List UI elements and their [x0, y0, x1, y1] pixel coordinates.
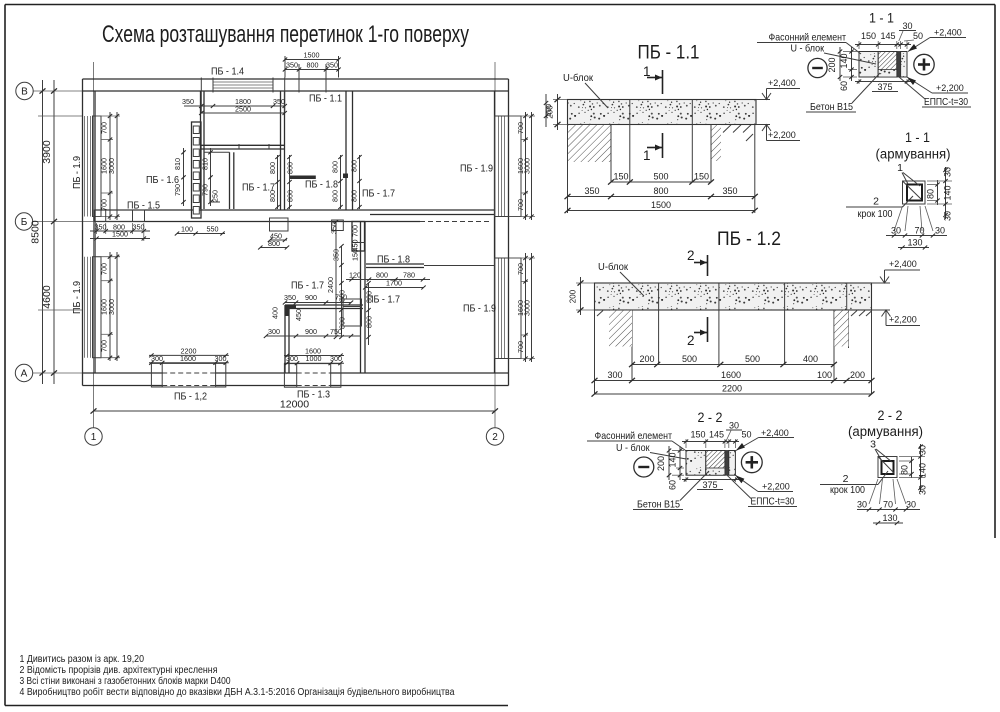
- plus circle: [914, 54, 934, 74]
- svg-text:350: 350: [330, 222, 339, 234]
- svg-text:200: 200: [546, 105, 555, 119]
- svg-text:+2,200: +2,200: [762, 482, 790, 492]
- svg-text:3 Всі стіни виконані з газобет: 3 Всі стіни виконані з газобетонних блок…: [20, 675, 231, 687]
- svg-text:+2,200: +2,200: [889, 315, 917, 325]
- section cut 1 bottom: [662, 133, 664, 158]
- svg-text:ПБ - 1.4: ПБ - 1.4: [211, 66, 244, 78]
- right wall stub hatched: [711, 125, 755, 183]
- right window 1 dims: [509, 112, 535, 220]
- svg-text:400: 400: [271, 307, 280, 319]
- svg-text:150: 150: [861, 31, 876, 41]
- top dim row: [685, 439, 687, 448]
- svg-text:ПБ - 1,2: ПБ - 1,2: [174, 391, 207, 403]
- svg-text:120: 120: [349, 271, 361, 280]
- svg-text:140: 140: [943, 185, 953, 200]
- interior wall V1: [280, 91, 282, 210]
- svg-text:700: 700: [100, 340, 109, 352]
- svg-text:800: 800: [653, 186, 668, 196]
- small room dims above H3: [285, 302, 351, 304]
- svg-text:800: 800: [331, 161, 340, 173]
- svg-text:700: 700: [100, 263, 109, 275]
- svg-text:200: 200: [850, 370, 865, 380]
- svg-text:ПБ - 1.7: ПБ - 1.7: [291, 280, 324, 292]
- svg-text:150: 150: [694, 172, 709, 182]
- left dim 200: [553, 99, 567, 101]
- left wall stub: [595, 310, 633, 394]
- svg-text:1000: 1000: [306, 354, 322, 363]
- right window 2 dims: [509, 253, 535, 362]
- svg-text:30: 30: [935, 226, 945, 236]
- right wall window 1 glazing: [498, 116, 500, 217]
- axis B2 circle: [15, 213, 32, 230]
- svg-text:130: 130: [907, 238, 922, 248]
- bottom dimension 12000: [94, 410, 496, 412]
- svg-text:1: 1: [643, 148, 651, 163]
- dims 450 800 opening near V1: [270, 239, 287, 241]
- svg-text:790: 790: [201, 184, 210, 196]
- PB-1.2 dims row1 200/500/500/400: [632, 364, 834, 366]
- svg-text:550: 550: [207, 225, 219, 234]
- svg-text:ЕППС-t=30: ЕППС-t=30: [751, 496, 795, 508]
- section cut 2 bottom: [707, 317, 709, 342]
- svg-text:800: 800: [350, 190, 359, 202]
- left wall: [82, 79, 84, 386]
- svg-text:2 - 2: 2 - 2: [698, 410, 723, 425]
- svg-text:810: 810: [173, 158, 182, 170]
- interior wall V2: [345, 91, 347, 210]
- svg-text:900: 900: [305, 293, 317, 302]
- left dimension line 8500: [42, 80, 44, 384]
- right dims 80 / 30 140 30: [927, 184, 938, 186]
- svg-text:800: 800: [365, 316, 374, 328]
- PB-1.2 dims 2200 / 300 1600 300: [149, 354, 229, 356]
- svg-text:Б: Б: [21, 217, 28, 228]
- svg-text:100: 100: [817, 370, 832, 380]
- svg-text:350: 350: [182, 97, 194, 106]
- PB-1.3 dims 1600 / 300 1000 300: [284, 355, 344, 357]
- svg-text:375: 375: [877, 82, 892, 92]
- bottom dims 30/70/30 130: [894, 206, 903, 231]
- svg-text:145: 145: [880, 31, 895, 41]
- svg-text:ПБ - 1.9: ПБ - 1.9: [463, 303, 496, 315]
- svg-text:350: 350: [273, 97, 285, 106]
- svg-text:ПБ - 1.1: ПБ - 1.1: [309, 93, 342, 105]
- left dimension line 3900/4600: [53, 80, 55, 384]
- wall stub PB-1.8 upper: [290, 176, 316, 180]
- right dims 80 / 30 140 30: [899, 460, 912, 462]
- svg-text:350: 350: [584, 186, 599, 196]
- svg-text:2 - 2: 2 - 2: [878, 408, 903, 423]
- svg-text:ЕППС-t=30: ЕППС-t=30: [924, 96, 968, 108]
- svg-text:200: 200: [639, 354, 654, 364]
- svg-text:2400: 2400: [326, 277, 335, 293]
- svg-text:450: 450: [294, 309, 303, 321]
- svg-text:Бетон В15: Бетон В15: [810, 101, 853, 113]
- svg-text:800: 800: [350, 160, 359, 172]
- row3 2200: [595, 393, 872, 395]
- ext lines left windows: [38, 115, 82, 117]
- svg-text:800: 800: [268, 239, 280, 248]
- svg-text:2500: 2500: [235, 105, 251, 114]
- thick corner at V5/H3: [285, 305, 296, 309]
- svg-text:700: 700: [516, 199, 525, 211]
- svg-text:350: 350: [133, 223, 145, 232]
- wall on axis Б: [95, 209, 495, 211]
- svg-text:Бетон В15: Бетон В15: [637, 499, 680, 511]
- svg-text:1500: 1500: [651, 200, 671, 210]
- svg-text:2 Відомість прорізів див. архі: 2 Відомість прорізів див. архітектурні к…: [20, 665, 218, 676]
- svg-text:1 Дивитись разом із арк. 19,20: 1 Дивитись разом із арк. 19,20: [20, 654, 145, 665]
- axis A circle: [15, 364, 32, 381]
- svg-text:70: 70: [914, 226, 924, 236]
- PB-1.5 lintel rect: [94, 210, 145, 222]
- svg-text:+2,400: +2,400: [889, 259, 917, 269]
- svg-text:200: 200: [656, 456, 666, 471]
- middle stub lines: [658, 310, 660, 365]
- svg-text:140: 140: [668, 452, 678, 467]
- left wall window 1 glazing: [85, 116, 505, 359]
- axis B2 line: [33, 221, 95, 223]
- svg-text:300: 300: [215, 354, 227, 363]
- wall jog piece at V2/V4 junction: [352, 222, 365, 252]
- svg-text:200: 200: [827, 57, 837, 72]
- svg-text:3000: 3000: [523, 158, 532, 174]
- plus circle: [741, 452, 762, 473]
- svg-text:750: 750: [335, 293, 347, 302]
- row2 300/1600/100/200: [595, 380, 872, 382]
- svg-text:800: 800: [268, 162, 277, 174]
- section cut 2 top: [707, 255, 709, 276]
- axis 2 circle: [486, 428, 503, 445]
- svg-text:800: 800: [286, 162, 295, 174]
- svg-text:150: 150: [690, 430, 705, 440]
- PB-1.4 dims (350/1800/350, 2500): [201, 105, 284, 107]
- svg-text:В: В: [21, 87, 28, 98]
- svg-text:30: 30: [943, 211, 953, 221]
- svg-text:300: 300: [151, 354, 163, 363]
- PB-1.1 concrete bar: [568, 100, 757, 125]
- rebar square: [878, 457, 897, 478]
- minus circle: [634, 457, 654, 477]
- left wall window 2 glazing: [84, 257, 86, 358]
- svg-text:1: 1: [91, 432, 97, 443]
- svg-text:350: 350: [326, 61, 338, 70]
- svg-text:400: 400: [803, 354, 818, 364]
- 375 dim below: [858, 79, 860, 84]
- PB-1.5 dims 350/800/350 1500: [90, 230, 150, 232]
- svg-text:200: 200: [569, 289, 578, 303]
- door openings in V1 V2 with 800 dims: [268, 155, 362, 209]
- svg-text:700: 700: [516, 263, 525, 275]
- svg-text:150: 150: [351, 249, 360, 261]
- bath door dashes in H1: [238, 144, 240, 150]
- dim 200 top right: [545, 94, 547, 127]
- top wall: [83, 78, 509, 80]
- svg-text:ПБ - 1.7: ПБ - 1.7: [362, 188, 395, 200]
- svg-text:30: 30: [906, 500, 916, 510]
- interior wall H4 (PB-1.8 lintel wall): [366, 263, 424, 265]
- left wall stub hatched: [568, 125, 612, 183]
- svg-text:крок 100: крок 100: [830, 484, 865, 496]
- axis B circle: [16, 82, 33, 99]
- H4 wall dims 120 800 780 1700: [346, 279, 430, 281]
- svg-text:790: 790: [173, 184, 182, 196]
- svg-text:30: 30: [918, 445, 928, 455]
- right wall window 2 glazing: [498, 258, 500, 359]
- svg-text:130: 130: [882, 513, 897, 523]
- svg-text:ПБ - 1.3: ПБ - 1.3: [297, 389, 330, 401]
- svg-text:ПБ - 1.8: ПБ - 1.8: [377, 254, 410, 266]
- svg-text:+2,200: +2,200: [936, 83, 964, 93]
- svg-text:60: 60: [839, 81, 849, 91]
- svg-text:700: 700: [516, 122, 525, 134]
- svg-text:150: 150: [613, 172, 628, 182]
- left dims 200 / 140 60: [843, 51, 857, 53]
- svg-text:ПБ - 1.9: ПБ - 1.9: [460, 163, 493, 175]
- axis B line: [33, 90, 83, 92]
- svg-text:100: 100: [181, 225, 193, 234]
- top dim row: [858, 41, 860, 49]
- interior wall H3: [285, 304, 363, 306]
- lintel rect PB-1.7 at V4 door: [343, 299, 362, 326]
- svg-text:375: 375: [702, 480, 717, 490]
- rebar square: [903, 181, 926, 204]
- lintel PB-1.3 rect: [284, 364, 341, 388]
- svg-text:3000: 3000: [107, 299, 116, 315]
- svg-text:700: 700: [516, 341, 525, 353]
- lintel rect left window 1: [93, 116, 102, 217]
- block cross-section: [686, 451, 706, 476]
- interior wall V4: [360, 222, 362, 374]
- svg-text:30: 30: [891, 226, 901, 236]
- sheet frame: [5, 4, 995, 6]
- lintel PB-1.2 rect: [151, 363, 225, 387]
- bottom wall: [83, 372, 509, 374]
- svg-text:крок 100: крок 100: [858, 208, 893, 220]
- svg-text:60: 60: [668, 480, 678, 490]
- svg-text:(армування): (армування): [876, 147, 951, 162]
- svg-text:350: 350: [95, 223, 107, 232]
- svg-text:1: 1: [897, 162, 903, 174]
- svg-text:Фасонний елемент: Фасонний елемент: [595, 430, 673, 442]
- lintel rect right window 1: [495, 116, 522, 217]
- svg-text:700: 700: [351, 225, 360, 237]
- svg-text:ПБ - 1.9: ПБ - 1.9: [71, 156, 83, 189]
- svg-text:2200: 2200: [722, 384, 742, 394]
- bath partition line: [204, 151, 230, 153]
- block cross-section: [859, 52, 878, 78]
- svg-text:2: 2: [492, 432, 498, 443]
- PB-1.1 bottom dims row1 150/500/150: [611, 181, 711, 183]
- svg-text:500: 500: [745, 354, 760, 364]
- svg-text:350: 350: [284, 293, 296, 302]
- section cut 1 top: [662, 70, 664, 94]
- lintel rect at Б opening near V1: [270, 218, 289, 231]
- svg-text:1 - 1: 1 - 1: [869, 11, 894, 26]
- interior wall V5: [284, 305, 286, 373]
- bar joints: [658, 283, 660, 310]
- svg-text:3: 3: [870, 439, 876, 451]
- svg-text:250: 250: [211, 190, 220, 202]
- left dims 200 / 140 60: [672, 450, 684, 452]
- door PB-1.1 in top wall: [298, 70, 300, 93]
- dims 100 550 below Б wall: [177, 233, 225, 235]
- svg-text:145: 145: [709, 430, 724, 440]
- left window 1 dims: [96, 112, 120, 220]
- svg-text:300: 300: [268, 327, 280, 336]
- svg-text:2: 2: [687, 333, 695, 348]
- svg-text:U - блок: U - блок: [616, 442, 650, 454]
- small room inner dims: [266, 335, 361, 337]
- svg-text:70: 70: [883, 500, 893, 510]
- bar joints: [629, 100, 631, 125]
- svg-text:800: 800: [365, 291, 374, 303]
- svg-text:ПБ - 1.8: ПБ - 1.8: [305, 179, 338, 191]
- svg-text:80: 80: [900, 465, 910, 475]
- svg-text:1600: 1600: [180, 354, 196, 363]
- axis 1 vertical line: [93, 62, 95, 428]
- svg-text:700: 700: [100, 122, 109, 134]
- svg-text:3000: 3000: [107, 158, 116, 174]
- svg-text:ПБ - 1.9: ПБ - 1.9: [71, 281, 83, 314]
- axis 2 vertical line: [494, 62, 496, 428]
- svg-text:8500: 8500: [30, 220, 42, 244]
- svg-text:U-блок: U-блок: [563, 72, 593, 84]
- svg-text:+2,400: +2,400: [768, 78, 796, 88]
- svg-text:30: 30: [902, 21, 912, 31]
- svg-text:(армування): (армування): [848, 424, 923, 439]
- cluster at Б/V4 junction dims: [326, 220, 374, 345]
- left dim 200: [576, 282, 594, 284]
- svg-text:1500: 1500: [112, 230, 128, 239]
- svg-text:+2,200: +2,200: [768, 130, 796, 140]
- svg-text:1500: 1500: [304, 51, 320, 60]
- svg-text:140: 140: [918, 463, 928, 478]
- svg-text:30: 30: [918, 485, 928, 495]
- svg-text:500: 500: [682, 354, 697, 364]
- svg-text:800: 800: [331, 190, 340, 202]
- svg-text:1600: 1600: [721, 370, 741, 380]
- axis 1 circle: [85, 428, 102, 445]
- PB-1.1 dims 1500 / 350 800 350: [285, 59, 339, 61]
- svg-text:800: 800: [286, 190, 295, 202]
- svg-text:140: 140: [839, 53, 849, 68]
- svg-text:3000: 3000: [523, 300, 532, 316]
- svg-text:U-блок: U-блок: [598, 261, 628, 273]
- 350 dim top middle: [184, 105, 201, 107]
- svg-text:+2,400: +2,400: [761, 428, 789, 438]
- dashed wall edges across openings: [162, 372, 215, 374]
- svg-text:80: 80: [926, 189, 936, 199]
- svg-text:900: 900: [305, 327, 317, 336]
- svg-text:4 Виробництво робіт вести відп: 4 Виробництво робіт вести відповідно до …: [20, 686, 455, 698]
- ventilation shaft column: [192, 122, 202, 218]
- svg-text:810: 810: [201, 158, 210, 170]
- svg-text:800: 800: [268, 190, 277, 202]
- left window 2 dims: [96, 252, 120, 361]
- svg-text:800: 800: [307, 61, 319, 70]
- svg-text:50: 50: [913, 31, 923, 41]
- svg-text:U - блок: U - блок: [791, 43, 825, 55]
- svg-text:ПБ - 1.1: ПБ - 1.1: [638, 43, 700, 64]
- svg-text:300: 300: [286, 354, 298, 363]
- row3 1500: [568, 210, 755, 212]
- svg-text:300: 300: [330, 354, 342, 363]
- svg-text:ПБ - 1.2: ПБ - 1.2: [717, 229, 781, 250]
- svg-text:1: 1: [643, 64, 651, 79]
- interior wall H1 bath top: [202, 144, 285, 146]
- svg-text:500: 500: [653, 172, 668, 182]
- svg-text:30: 30: [857, 500, 867, 510]
- svg-text:700: 700: [100, 199, 109, 211]
- minus circle: [808, 58, 827, 77]
- bottom dims 30/70/30 130: [869, 479, 878, 504]
- row2 350/800/350: [568, 196, 755, 198]
- concrete fill inside hatch bottom: [878, 70, 897, 78]
- svg-text:750: 750: [330, 327, 342, 336]
- svg-text:350: 350: [286, 61, 298, 70]
- svg-text:2: 2: [873, 196, 879, 208]
- right wall: [508, 79, 510, 386]
- svg-text:2: 2: [687, 248, 695, 263]
- window PB-1.4 glazing: [213, 82, 273, 88]
- right wall stub: [834, 310, 872, 394]
- PB-1.2 concrete bar: [595, 283, 872, 310]
- svg-text:50: 50: [741, 430, 751, 440]
- PB-1.6 dim cluster: [173, 148, 213, 206]
- svg-text:350: 350: [722, 186, 737, 196]
- bath partition wall vertical: [229, 152, 231, 209]
- svg-text:30: 30: [943, 167, 953, 177]
- axis A line: [33, 372, 83, 374]
- svg-text:Схема розташування перетинок 1: Схема розташування перетинок 1-го поверх…: [102, 21, 469, 48]
- svg-text:+2,400: +2,400: [934, 28, 962, 38]
- svg-text:1 - 1: 1 - 1: [905, 130, 930, 145]
- lintel rect right window 2: [495, 258, 522, 359]
- svg-text:300: 300: [607, 370, 622, 380]
- 375 dim: [685, 477, 687, 482]
- opening white-outs on bottom wall: [163, 372, 215, 387]
- svg-text:А: А: [21, 369, 28, 380]
- interior wall V3: [200, 91, 202, 209]
- svg-text:30: 30: [729, 421, 739, 431]
- middle stub edges: [629, 125, 631, 183]
- svg-text:780: 780: [403, 271, 415, 280]
- svg-text:1700: 1700: [386, 279, 402, 288]
- lintel rect left window 2: [93, 257, 102, 358]
